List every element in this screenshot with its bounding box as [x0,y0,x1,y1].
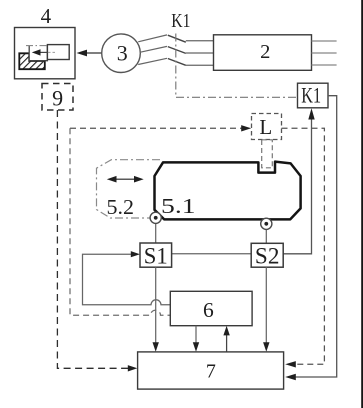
switch K1 pole 3 [138,58,167,64]
wire motor 3 to unit 4 with arrow [86,52,102,54]
svg-text:K1: K1 [301,83,321,108]
sensor pivot 1 [150,212,161,223]
sensor S1 box [140,243,172,267]
sensor pivot 2 [261,218,272,229]
svg-text:S1: S1 [144,243,168,268]
svg-text:4: 4 [41,4,52,28]
svg-text:2: 2 [260,41,270,63]
wire 6 to block 7 with arrow [195,326,197,347]
relay K1 box [298,83,329,108]
svg-text:7: 7 [206,361,216,383]
dashed line L to block 7 with arrow [282,128,325,364]
switch K1 pole 2 [140,46,167,52]
wire S2 to block 7 with arrow [265,267,267,346]
svg-text:K1: K1 [171,10,190,32]
svg-text:S2: S2 [255,243,280,268]
block 7 [138,352,284,389]
wire relay K1 to block 7 [291,96,337,377]
block 2 output wires [312,40,337,42]
dashed system boundary [70,128,170,315]
svg-text:5.2: 5.2 [107,195,135,219]
phantom tank position 5.2 outline [97,160,161,218]
unit 4 hatched block [19,53,45,69]
wire S2 to relay K1 with arrow [283,118,311,254]
dashed line 9 to block 7 with arrow [57,110,131,368]
motor 3 [102,34,141,73]
unit 4 piston rectangle [29,46,47,61]
sensor pivot 2 stem [265,229,267,244]
unit 4 internal arrow [40,51,48,53]
switch K1 pole 1 [138,35,167,42]
tank 5.1 [155,162,301,220]
sensor L dashed box [252,114,282,140]
sensor pivot 1 stem [155,223,157,243]
svg-text:6: 6 [203,298,214,322]
svg-text:L: L [259,115,272,139]
block 6 [170,291,252,325]
dashed control line to L with arrow [70,127,245,129]
block 9 dashed box [42,84,73,111]
unit 4 cylinder rectangle [47,45,69,60]
switch K1 linkage dash-dot to relay K1 [176,34,298,98]
svg-text:5.1: 5.1 [161,194,196,218]
svg-text:3: 3 [117,41,128,66]
wire S1 to S2 [172,253,252,255]
unit 4 box [15,28,76,79]
wire 6 to S1 with hop and arrow [83,254,171,305]
sensor S2 box [251,243,283,267]
svg-text:9: 9 [52,86,63,111]
wire 7 to block 6 with arrow [226,332,228,352]
block 2 [214,35,312,71]
wire S1 to block 7 with arrow [155,267,157,346]
unit 4 rod centerline [26,45,56,47]
double arrow [112,178,139,180]
filler neck dashed [262,140,273,168]
